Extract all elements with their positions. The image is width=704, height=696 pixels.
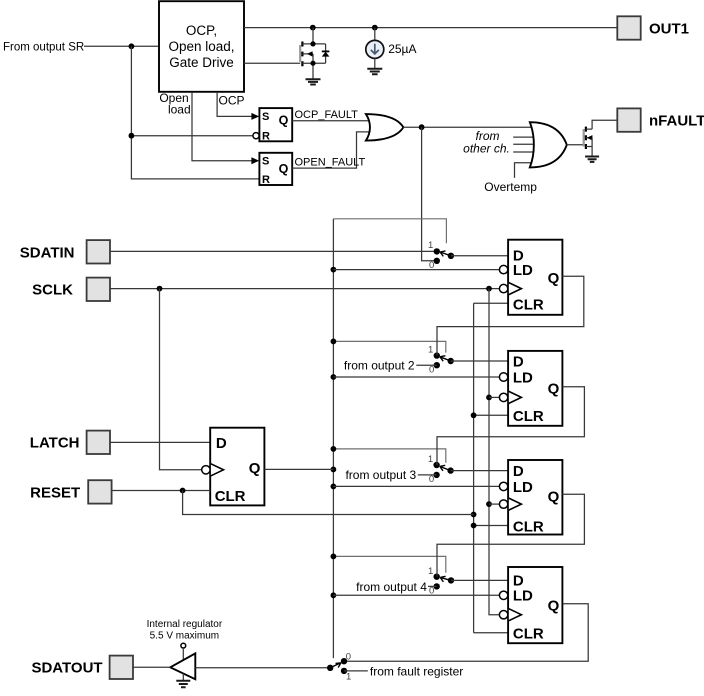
svg-text:Q: Q	[279, 113, 289, 127]
svg-text:OPEN_FAULT: OPEN_FAULT	[295, 157, 366, 169]
label Internal regulator 5.5 V maximum	[147, 619, 223, 641]
svg-text:0: 0	[346, 651, 351, 662]
svg-text:0: 0	[429, 364, 434, 375]
svg-text:SDATOUT: SDATOUT	[31, 660, 102, 677]
wire mux4 select stub	[333, 556, 445, 572]
svg-text:from fault register: from fault register	[370, 664, 463, 678]
node LD junction DFF2	[331, 374, 337, 380]
svg-text:0: 0	[429, 260, 434, 271]
wire mux3 select stub	[333, 449, 445, 463]
wire LATCH to latch DFF D	[110, 441, 210, 443]
svg-text:1: 1	[428, 454, 433, 465]
wire CLR bus vertical	[473, 303, 475, 633]
wire CLR branch DFF1	[474, 302, 509, 304]
svg-text:1: 1	[346, 672, 351, 683]
pad SCLK	[87, 278, 110, 301]
node clock junction DFF2	[486, 395, 492, 401]
wire SCLK to DFF1 clock	[110, 288, 500, 290]
wire OCP_FAULT	[292, 120, 372, 122]
svg-text:D: D	[216, 435, 227, 452]
wire mux1 select stub	[333, 219, 446, 244]
label SCLK	[32, 282, 73, 299]
svg-text:1: 1	[428, 566, 433, 577]
svg-text:From output SR: From output SR	[3, 41, 84, 53]
svg-text:from output 2: from output 2	[344, 359, 415, 373]
svg-text:SDATIN: SDATIN	[20, 244, 75, 261]
node LD junction DFF4	[331, 592, 337, 598]
svg-text:CLR: CLR	[513, 408, 544, 425]
label LATCH	[30, 435, 80, 452]
label Open load	[159, 91, 190, 116]
transistor M1 output FET with body diode	[300, 28, 329, 80]
mux switch SW4	[428, 566, 454, 597]
wire SDATIN to mux1 input 1	[110, 250, 437, 252]
svg-text:CLR: CLR	[513, 518, 544, 535]
wire from fault register stub	[344, 670, 368, 672]
wire Q3 feedback to mux4	[437, 494, 584, 576]
node LD junction mux4 select	[331, 554, 337, 560]
wire from-output-SR input	[84, 45, 159, 47]
node junction at R1 branch	[129, 133, 135, 139]
svg-text:Q: Q	[279, 162, 289, 176]
svg-text:CLR: CLR	[215, 488, 246, 505]
pad OUT1	[617, 16, 640, 39]
wire OCP to latch1 S	[217, 92, 252, 116]
transistor M2 nFAULT open drain FET	[584, 120, 618, 156]
or-gate U5 global fault OR	[530, 122, 567, 167]
svg-text:R: R	[262, 131, 270, 143]
wire Overtemp input	[515, 163, 538, 178]
svg-text:Q: Q	[548, 488, 560, 505]
wire from output 2 stub	[416, 364, 437, 366]
node LD junction mux3 select	[331, 446, 337, 452]
label From output SR	[3, 41, 84, 53]
svg-text:LD: LD	[513, 588, 533, 605]
wire CLR branch DFF3	[474, 525, 509, 527]
svg-text:from output 3: from output 3	[345, 468, 416, 482]
label SDATOUT	[31, 660, 102, 677]
node CLR junction DFF3	[471, 523, 477, 529]
svg-text:Q: Q	[548, 381, 560, 398]
flip-flop U10 latch DFF	[202, 428, 265, 506]
label nFAULT	[649, 113, 704, 130]
svg-text:RESET: RESET	[30, 484, 80, 501]
wire Q1 feedback to mux2	[437, 276, 584, 355]
wire LD branch DFF3	[333, 485, 499, 487]
svg-text:LD: LD	[513, 262, 533, 279]
pad nFAULT	[617, 108, 640, 131]
flip-flop U7 shift register bit 2	[499, 351, 562, 426]
svg-text:0: 0	[429, 586, 434, 597]
node CLR junction reset	[471, 512, 477, 518]
wire LD branch DFF4	[333, 594, 499, 596]
label from output 2	[344, 359, 415, 373]
wire from output 4 stub	[428, 585, 437, 587]
label from output 3	[345, 468, 416, 482]
flip-flop U8 shift register bit 3	[499, 460, 562, 535]
wire fault net vertical to mux1	[422, 127, 434, 261]
buffer U11 SDATOUT tri-state driver	[170, 643, 195, 680]
wire gate drive to M1	[244, 62, 300, 64]
label SDATIN	[20, 244, 75, 261]
svg-text:CLR: CLR	[513, 626, 544, 643]
mux switch SW2	[428, 345, 454, 376]
svg-text:D: D	[513, 353, 524, 370]
wire clock branch DFF3	[489, 503, 500, 505]
ground under M2	[585, 157, 599, 162]
wire mux1 output to DFF1 D	[451, 255, 508, 257]
svg-text:OCP_FAULT: OCP_FAULT	[295, 109, 359, 121]
or-gate U4 fault OR	[366, 114, 404, 140]
latch U2 OCP SR latch	[251, 108, 292, 142]
wire LD branch DFF2	[333, 376, 499, 378]
svg-text:5.5 V maximum: 5.5 V maximum	[150, 630, 219, 641]
label from output 4	[356, 580, 427, 594]
ground under buffer	[176, 681, 190, 687]
pad SDATIN	[87, 240, 110, 263]
flip-flop U9 shift register bit 4	[499, 567, 562, 643]
wire LD bus vertical	[332, 219, 334, 658]
svg-text:OCP,: OCP,	[186, 23, 217, 38]
svg-text:Q: Q	[548, 598, 560, 615]
svg-text:S: S	[262, 111, 269, 123]
svg-text:OCP: OCP	[218, 94, 244, 108]
label Overtemp	[484, 180, 537, 194]
svg-text:D: D	[513, 463, 524, 480]
ground under current source	[367, 69, 382, 74]
wire OPEN_FAULT	[292, 132, 372, 168]
label OUT1	[649, 20, 689, 37]
ground under M1	[306, 79, 321, 84]
svg-text:0: 0	[429, 474, 434, 485]
svg-text:LD: LD	[513, 479, 533, 496]
label OPEN_FAULT	[295, 157, 366, 169]
wire RESET to latch DFF CLR	[112, 490, 211, 492]
wire mux4 output to DFF4 D	[451, 579, 508, 581]
wire OR1 output to OR2	[403, 126, 534, 128]
svg-text:other ch.: other ch.	[463, 142, 510, 156]
wire SDATOUT pad to buffer	[133, 666, 170, 668]
wire SCLK bus vertical	[489, 289, 500, 615]
label 25uA	[388, 42, 416, 56]
node junction at M1 drain	[310, 25, 316, 31]
node LD junction DFF1	[331, 267, 337, 273]
node junction at current source	[372, 25, 378, 31]
label OCP	[218, 94, 244, 108]
svg-text:Q: Q	[548, 270, 560, 287]
wire CLR branch DFF4	[474, 632, 509, 634]
wire buffer to readback mux	[195, 667, 330, 669]
diode body diode of M1	[325, 44, 327, 63]
mux switch SW1	[428, 240, 454, 271]
svg-text:R: R	[262, 174, 270, 186]
node SCLK junction to latch clock	[157, 286, 163, 292]
wire mux2 output to DFF2 D	[451, 360, 508, 362]
svg-text:Overtemp: Overtemp	[484, 180, 537, 194]
wire SCLK to latch DFF clock	[160, 289, 202, 470]
node RESET junction	[180, 488, 186, 494]
wire OR2 output to M2 gate	[567, 144, 584, 146]
mux switch SW3	[428, 454, 454, 485]
wire mux2 select stub	[333, 341, 445, 352]
svg-text:Gate Drive: Gate Drive	[169, 55, 234, 70]
svg-text:Open load,: Open load,	[168, 39, 234, 54]
svg-text:Internal regulator: Internal regulator	[147, 619, 223, 630]
wire clock branch DFF2	[489, 396, 500, 398]
wire from output 3 stub	[418, 474, 437, 476]
svg-text:CLR: CLR	[513, 297, 544, 314]
wire latch Q to LD bus	[264, 468, 333, 470]
node LD junction DFF3	[331, 484, 337, 490]
svg-text:from output 4: from output 4	[356, 580, 427, 594]
node LD junction mux2 select	[331, 339, 337, 345]
latch U3 open-load SR latch	[251, 153, 292, 186]
mux switch SW5 readback select	[327, 651, 351, 682]
block OCP Open load Gate Drive	[159, 1, 244, 92]
wire Q4 feedback to readback mux	[344, 604, 588, 662]
svg-text:25µA: 25µA	[388, 42, 416, 56]
wire mux3 output to DFF3 D	[451, 470, 509, 472]
svg-text:LD: LD	[513, 369, 533, 386]
label RESET	[30, 484, 80, 501]
svg-text:1: 1	[428, 345, 433, 356]
wire CLR branch DFF2	[474, 414, 509, 416]
svg-text:S: S	[262, 155, 269, 167]
node CLR junction DFF2	[471, 412, 477, 418]
pad LATCH	[87, 431, 110, 454]
node junction fault net	[419, 124, 425, 130]
node SCLK junction to clock bus	[486, 286, 492, 292]
node LD junction latch Q	[331, 467, 337, 473]
label from other ch.	[463, 129, 510, 156]
svg-text:nFAULT: nFAULT	[649, 113, 704, 130]
wire open-load to latch2 S	[192, 92, 252, 161]
wire Q2 feedback to mux3	[437, 387, 584, 465]
node clock junction DFF3	[486, 501, 492, 507]
wire RESET to CLR bus	[183, 491, 474, 515]
svg-text:load: load	[168, 102, 191, 116]
current source 25uA	[366, 28, 384, 69]
svg-text:1: 1	[428, 240, 433, 251]
flip-flop U6 shift register bit 1	[499, 240, 562, 315]
svg-text:LATCH: LATCH	[30, 435, 80, 452]
svg-text:SCLK: SCLK	[32, 282, 73, 299]
wire SR feed to R inputs	[131, 46, 259, 179]
svg-text:OUT1: OUT1	[649, 20, 689, 37]
label OCP_FAULT	[295, 109, 359, 121]
pad SDATOUT	[110, 656, 133, 679]
svg-text:Q: Q	[249, 460, 261, 477]
pad RESET	[88, 480, 111, 503]
label from fault register	[370, 664, 463, 678]
wire LD branch DFF1	[333, 269, 499, 271]
wire OUT1 net	[244, 27, 617, 29]
node junction on input wire	[129, 43, 135, 49]
wire other channel inputs	[513, 137, 538, 152]
